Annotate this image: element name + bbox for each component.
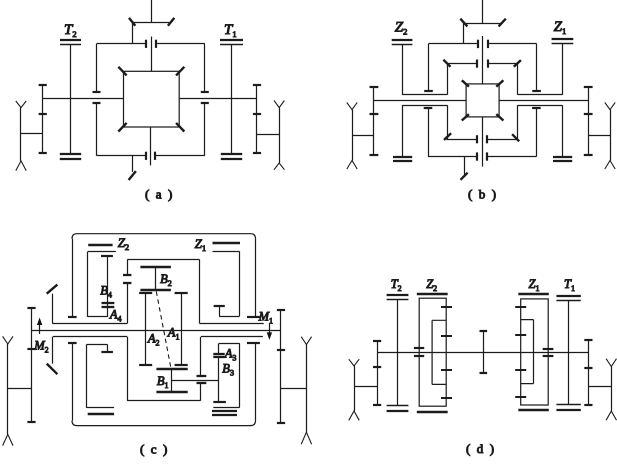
clutch bars row4 (b)	[477, 152, 487, 160]
Z2 clutch bars (d)	[414, 348, 424, 356]
gear Z2 label	[395, 20, 408, 37]
square corner tick TL (a)	[118, 67, 126, 76]
ring gear Z1 tooth bar (c)	[213, 242, 241, 245]
Z1 tooth bar bottom (d)	[518, 409, 549, 411]
carrier frame top line (a)	[97, 43, 205, 45]
gear T2 bottom bars	[60, 154, 81, 159]
bearing left of (d)	[349, 359, 359, 420]
bottom bevel tick (a)	[129, 171, 136, 180]
arrow M2 (c)	[37, 318, 42, 335]
gear T2 shaft	[70, 44, 72, 154]
square corner tick TR (a)	[176, 67, 184, 76]
clutch stem lower (c)	[200, 337, 202, 376]
B1 box bottom (c)	[127, 400, 200, 402]
gear T1 bottom bars	[221, 154, 242, 159]
carrier frame left vertical (a)	[96, 44, 98, 156]
label B2 (c)	[160, 272, 172, 288]
brake gear B1 (c)	[156, 369, 187, 392]
clutch bars lower (c)	[197, 376, 207, 383]
link A2 (c)	[139, 293, 152, 365]
housing right edge lower (c)	[247, 343, 260, 421]
cage bottom-right horizontal (b)	[517, 105, 562, 107]
left bevel tick lower (c)	[47, 364, 58, 375]
Z2 mesh ticks (d)	[441, 307, 452, 398]
carrier frame bottom line (a)	[97, 155, 205, 157]
caption (c)	[140, 442, 169, 457]
gear Z2 bottom bars	[393, 157, 412, 161]
top bevel tick right (a)	[168, 18, 174, 26]
gear T2 top bars	[60, 40, 81, 45]
label B3 (c)	[222, 362, 234, 378]
gear shaft left (a) with end caps	[39, 85, 47, 153]
bottom bevel drop (a)	[132, 156, 134, 172]
housing top edge (c)	[77, 233, 251, 235]
main shaft left segment (a)	[43, 98, 124, 100]
connector gear-to-bearing right (a)	[257, 134, 279, 136]
connector bearing right (b)	[588, 135, 610, 137]
gear Z2 lower shaft (b)	[402, 105, 404, 156]
clutch bars bottom (a)	[146, 152, 155, 160]
link A1 (c)	[175, 293, 188, 365]
gear T1 bars bottom (d)	[556, 405, 580, 411]
housing left edge lower (c)	[68, 343, 77, 421]
frame line 1 (b)	[429, 43, 537, 45]
gear Z1 label (d)	[529, 277, 540, 293]
label M1 (c)	[258, 309, 273, 325]
caption (b)	[468, 187, 498, 202]
brake gear B2 (c)	[140, 267, 171, 290]
left bevel vertical upper (c)	[52, 294, 54, 324]
connector bearing right (d)	[588, 386, 611, 388]
housing bottom edge (c)	[72, 421, 256, 426]
square corner tick BR (a)	[176, 123, 184, 132]
bevel layer3 line (b)	[446, 139, 517, 141]
gear Z1 bottom bars	[553, 157, 572, 161]
gear T2 shaft (d)	[397, 300, 399, 405]
Z1 hanging gear stem (c)	[214, 306, 225, 317]
svg-text:( c ): ( c )	[140, 442, 169, 457]
layer2 tick right (b)	[514, 60, 521, 67]
Z1 mesh ticks (d)	[515, 307, 526, 397]
top bevel gear bar (b)	[464, 23, 501, 25]
hanging gear stem lower-left (b)	[424, 108, 433, 157]
top bevel tick left (a)	[129, 18, 135, 26]
square corner tick TR (b)	[496, 80, 503, 86]
cage bottom-left horizontal (b)	[402, 105, 448, 107]
cage vertical lower-right (b)	[517, 105, 519, 139]
gear T1 top bars	[220, 40, 243, 45]
label A2 (c)	[147, 332, 160, 348]
hanging gear stem upper-left (b)	[424, 44, 433, 92]
connector bearing left (c)	[8, 388, 32, 390]
hanging gear stem lower-right (b)	[532, 108, 541, 157]
gear shaft left (d) with caps	[373, 341, 381, 405]
B2 box left vertical (c)	[127, 260, 129, 276]
housing top-right corner (c)	[251, 234, 256, 239]
clutch bars row1 (b)	[478, 40, 488, 48]
gear shaft right (c) with caps	[277, 310, 285, 423]
main shaft (d)	[377, 352, 588, 354]
lower-left tooth bar (c)	[88, 413, 114, 416]
mesh bars B4/A4 (c)	[102, 303, 115, 307]
center vertical shaft lower (a)	[150, 127, 152, 165]
mesh caps left (a)	[93, 92, 101, 103]
bearing right of (a)	[274, 101, 284, 170]
lower-left box (c)	[87, 344, 115, 408]
housing left edge upper (c)	[68, 239, 77, 317]
clutch bars upper (c)	[123, 275, 131, 283]
gear Z1 top bars	[552, 39, 574, 44]
left bevel vertical lower (c)	[52, 337, 54, 364]
top bevel tick left (b)	[460, 19, 467, 27]
caption (d)	[466, 441, 496, 456]
cage top-right horizontal (b)	[518, 94, 563, 96]
carrier frame right vertical (a)	[204, 44, 206, 156]
svg-text:( b ): ( b )	[468, 187, 498, 202]
label B4 (c)	[100, 284, 112, 300]
bevel layer2 line (b)	[447, 63, 518, 65]
lower-left hanging stem (c)	[101, 344, 113, 352]
center vertical shaft lower (b)	[482, 117, 484, 167]
gear T2 bars bottom (d)	[387, 406, 409, 412]
Z2 tooth bar bottom (d)	[417, 411, 448, 413]
connector B1-B3 (c)	[172, 380, 219, 382]
Z1 clutch bars (d)	[543, 349, 554, 356]
clutch bars top (a)	[146, 40, 156, 48]
input shaft top (b)	[482, 0, 484, 23]
bearing left of (b)	[347, 102, 357, 169]
bearing left of (a)	[16, 101, 26, 171]
square corner tick TL (b)	[462, 80, 469, 86]
Z1 inner box (d)	[521, 320, 534, 384]
bottom bevel drop (b)	[464, 157, 466, 175]
gear shaft right (b) with caps	[584, 87, 593, 155]
gear Z2 label (c)	[118, 235, 129, 252]
label A1 (c)	[167, 326, 180, 342]
label A4 (c)	[109, 307, 122, 323]
layer3 tick left (b)	[444, 133, 451, 140]
B1 box right vertical (c)	[200, 383, 202, 400]
clutch bars row2 (b)	[477, 60, 488, 68]
square corner tick BL (b)	[462, 114, 469, 120]
mesh bars A3 (c)	[213, 354, 224, 357]
mesh caps right (a)	[201, 92, 209, 103]
gear T1 label	[224, 22, 237, 39]
connector bearing left (b)	[352, 135, 374, 137]
gear Z2 upper shaft (b)	[402, 45, 404, 95]
left bevel tick upper (c)	[47, 285, 58, 294]
arrow M1 (c)	[267, 323, 272, 340]
B2 box top (c)	[127, 259, 199, 261]
Z2 hanging gear stem (c)	[101, 256, 113, 317]
cage vertical lower-left (b)	[447, 105, 449, 139]
bevel-to-frame drop (a)	[132, 22, 134, 43]
square corner tick BR (b)	[496, 114, 503, 120]
frame line 4 (b)	[428, 156, 536, 158]
svg-text:( d ): ( d )	[466, 441, 496, 456]
clutch bars row3 (b)	[477, 135, 487, 143]
B3 box top (c)	[219, 343, 240, 345]
square corner tick BL (a)	[118, 123, 126, 132]
gear T1 shaft (d)	[568, 301, 570, 405]
gear T1 label (d)	[564, 277, 575, 293]
layer3 tick right (b)	[512, 134, 519, 141]
housing top-left corner (c)	[72, 234, 77, 239]
clutch stem to sleeve (c)	[127, 283, 129, 324]
bottom bevel tick (b)	[461, 173, 468, 180]
svg-text:( a ): ( a )	[145, 187, 174, 202]
label M2 (c)	[33, 339, 48, 355]
gear T1 bars top (d)	[556, 296, 580, 301]
Z1 bracket (c)	[213, 251, 240, 316]
B3 box right+bottom (c)	[213, 343, 240, 407]
main shaft left segment (b)	[374, 100, 466, 102]
bevel cross square (a)	[124, 71, 180, 127]
Z2 tooth bar top (d)	[417, 293, 448, 295]
main shaft right segment (b)	[499, 100, 588, 102]
center vertical shaft upper (b)	[482, 36, 484, 84]
B2 box right vertical (c)	[199, 260, 201, 324]
connector bearing-to-gear left (a)	[21, 133, 43, 135]
gear shaft left (b) with caps	[370, 87, 379, 155]
Z1 tooth bar top (d)	[518, 293, 549, 295]
gear Z1 label	[554, 19, 567, 36]
ring gear Z2 tooth bar (c)	[88, 244, 112, 247]
B3 stem upper (c)	[218, 343, 220, 353]
bearing right of (c)	[301, 337, 311, 445]
Z2 inner box (d)	[432, 320, 446, 384]
label A3 (c)	[224, 347, 237, 363]
gear Z1 upper shaft (b)	[562, 43, 564, 94]
housing right edge upper (c)	[247, 239, 260, 317]
gear T2 bars top (d)	[387, 295, 409, 300]
hanging gear stem upper-right (b)	[532, 44, 541, 92]
gear Z1 label (c)	[195, 236, 206, 253]
cage top-left horizontal (b)	[402, 94, 447, 96]
B1 box left vertical (c)	[127, 337, 129, 401]
bevel cross square (b)	[466, 84, 499, 117]
cage vertical upper-right (b)	[517, 63, 519, 95]
input shaft top (a)	[151, 0, 153, 22]
bearing left of (c)	[3, 336, 13, 445]
top bevel gear bar (a)	[133, 22, 169, 24]
sleeve top line (c)	[52, 323, 263, 325]
dashed link B2-B1 (c)	[156, 292, 171, 368]
bevel-to-frame drop (b)	[463, 23, 465, 44]
bearing right of (d)	[606, 359, 616, 421]
gear Z2 top bars	[392, 40, 413, 45]
gear shaft left (c) with caps	[27, 308, 35, 422]
cage vertical upper-left (b)	[447, 63, 449, 95]
label B1 (c)	[157, 374, 169, 390]
connector bearing left (d)	[354, 386, 377, 388]
center gear (d)	[480, 331, 488, 373]
Z1 outer box (d)	[521, 299, 549, 405]
B3 stem lower (c)	[213, 357, 226, 402]
Z2 bracket (c)	[88, 252, 116, 317]
gear Z1 lower shaft (b)	[562, 105, 564, 156]
gear T2 label	[64, 22, 77, 39]
gear T2 label (d)	[391, 277, 402, 293]
connector bearing right (c)	[281, 388, 306, 390]
gear shaft right (d) with caps	[584, 340, 592, 405]
main shaft right segment (a)	[179, 98, 257, 100]
top bevel tick right (b)	[499, 19, 506, 27]
layer2 tick left (b)	[443, 60, 450, 67]
bearing right of (b)	[605, 102, 615, 169]
sleeve bottom line (c)	[53, 336, 263, 338]
Z2 outer box (d)	[419, 298, 446, 406]
main shaft (c)	[32, 330, 282, 332]
B3 bottom tooth bars (c)	[212, 411, 237, 415]
caption (a)	[145, 187, 174, 202]
gear T1 shaft	[231, 44, 233, 154]
gear Z2 label (d)	[426, 277, 437, 293]
gear shaft right (a) with end caps	[253, 85, 261, 153]
center vertical shaft upper (a)	[151, 37, 153, 72]
